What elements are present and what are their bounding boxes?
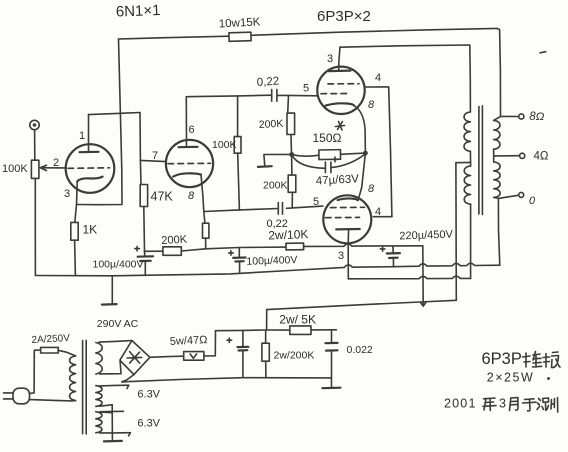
- wire feedback riser and cathode line: [77, 39, 123, 205]
- tube V1b 6N1 triode: [166, 140, 213, 187]
- svg-text:10w15K: 10w15K: [219, 16, 261, 30]
- svg-text:290V AC: 290V AC: [97, 318, 139, 330]
- grid dashes V1b: [168, 162, 211, 164]
- fuse 2A/250V: [41, 347, 59, 353]
- resistor 2w/10K: [286, 243, 304, 250]
- wire HV top to bridge: [99, 341, 132, 343]
- svg-text:2w/ 5K: 2w/ 5K: [279, 313, 316, 327]
- svg-text:6.3V: 6.3V: [137, 389, 160, 401]
- svg-text:5w/47Ω: 5w/47Ω: [170, 334, 208, 348]
- wire plate rail upper 6P3P to OPT: [340, 45, 470, 112]
- resistor 100K splitter plate: [234, 137, 241, 154]
- ground symbol heater: [104, 440, 122, 443]
- terminal 4ohm: [520, 153, 525, 158]
- ground bus main: [35, 263, 499, 276]
- wire 47K bottom to node B3: [143, 207, 146, 252]
- wire bridge negative jog: [122, 375, 134, 382]
- svg-text:150Ω: 150Ω: [313, 131, 342, 145]
- wire 200K to junction: [290, 135, 293, 155]
- OPT primary coil upper: [464, 112, 470, 151]
- capacitor 0.022: [331, 330, 333, 343]
- wire grid-leak stub: [264, 154, 292, 165]
- wire CT horizontal: [456, 161, 471, 163]
- resistor 200K upper: [287, 113, 295, 134]
- plus sign PSU cap: [227, 338, 232, 343]
- svg-text:200K: 200K: [259, 118, 284, 131]
- svg-text:2A/250V: 2A/250V: [31, 333, 70, 346]
- mark inside 47ohm: [190, 354, 196, 358]
- wire 0 tap: [494, 195, 518, 198]
- svg-text:100K: 100K: [2, 163, 28, 175]
- resistor 47K: [140, 185, 147, 207]
- wire 47ohm riser: [204, 331, 216, 356]
- wire pot wiper to grid V1a: [43, 167, 66, 169]
- plus sign cap1: [135, 246, 140, 251]
- wire V1a plate horizontal: [89, 113, 141, 115]
- wire B2 to 10K: [206, 247, 286, 249]
- svg-text:6P3P×2: 6P3P×2: [317, 8, 371, 25]
- svg-text:8: 8: [368, 183, 375, 195]
- wire 200K upper top: [287, 95, 290, 113]
- wire grid4 wire V2 pin4: [365, 86, 389, 88]
- tube V2 upper 6P3P: [317, 67, 364, 114]
- grid dashes V3: [326, 216, 360, 218]
- screen dashes V2: [328, 83, 359, 85]
- resistor 200K horizontal: [163, 247, 181, 256]
- svg-text:4: 4: [375, 72, 381, 84]
- OPT primary tap jog: [469, 151, 471, 166]
- wire junction to 200K lower: [291, 155, 293, 176]
- wire 100K cathode bottom: [205, 238, 207, 249]
- svg-text:6N1×1: 6N1×1: [116, 2, 161, 21]
- grid dashes V2: [321, 93, 350, 95]
- svg-text:100µ/400V: 100µ/400V: [93, 259, 144, 271]
- wire 100K splitter top: [237, 96, 239, 137]
- wire cap lower left: [240, 209, 279, 210]
- svg-text:8Ω: 8Ω: [529, 111, 544, 123]
- arrowhead at H3: [421, 302, 426, 306]
- svg-text:47K: 47K: [151, 190, 174, 204]
- wire to 150ohm: [292, 155, 319, 157]
- svg-text:0.022: 0.022: [347, 344, 373, 356]
- svg-text:2×25W: 2×25W: [487, 370, 534, 384]
- screen dashes V3: [331, 206, 365, 208]
- capacitor 47u/63V plates: [324, 162, 326, 173]
- asterisk mark: [336, 122, 345, 131]
- PT core: [82, 341, 84, 434]
- wire bleeder bottom: [265, 361, 267, 377]
- wire 4ohm tap: [494, 149, 519, 156]
- plus sign cap2: [229, 251, 234, 255]
- svg-text:0,22: 0,22: [256, 75, 279, 89]
- glyph yu: [523, 399, 537, 411]
- wire 1K to ground bus: [74, 240, 77, 275]
- OPT secondary coil lower: [494, 162, 500, 197]
- wire plate node down to 47K: [140, 113, 141, 185]
- ground symbol 0.022: [322, 387, 340, 390]
- wire 6.3V A top lead: [100, 385, 129, 388]
- cathode V1b: [173, 173, 201, 176]
- plate bar V2: [329, 69, 351, 72]
- wire V1a plate lead: [88, 115, 90, 152]
- bridge asterisk: [127, 352, 142, 364]
- wire H3 PSU to Bplus: [267, 300, 457, 309]
- svg-text:7: 7: [152, 150, 158, 162]
- capacitor 0,22 upper: [271, 89, 273, 101]
- resistor 5w/47ohm: [184, 352, 204, 361]
- svg-text:2: 2: [53, 157, 59, 169]
- wire PSU top node: [216, 329, 290, 332]
- OPT secondary coil upper: [494, 120, 500, 149]
- wire cathode V1a down: [75, 182, 77, 223]
- wire 200K horiz left: [145, 250, 163, 252]
- bridge rectifier diamond: [120, 341, 150, 375]
- wire jack to pot: [34, 130, 36, 160]
- svg-text:2w/10K: 2w/10K: [268, 227, 308, 242]
- svg-text:8: 8: [188, 190, 195, 202]
- dot mark: [547, 377, 550, 380]
- resistor 2w/200K bleeder: [262, 343, 269, 361]
- svg-text:1K: 1K: [83, 223, 98, 237]
- svg-text:100µ/400V: 100µ/400V: [246, 254, 297, 268]
- glyph tui: [523, 352, 542, 368]
- svg-text:2w/200K: 2w/200K: [274, 350, 315, 362]
- plate bar V1b: [179, 146, 198, 149]
- svg-text:3: 3: [327, 53, 333, 65]
- wire 0-tap drop: [498, 198, 499, 265]
- svg-text:3: 3: [64, 188, 70, 200]
- stub bar: [258, 165, 272, 168]
- svg-text:47µ/63V: 47µ/63V: [316, 173, 360, 187]
- wire plate lead lower 6P3P down: [347, 229, 349, 278]
- svg-text:8: 8: [368, 99, 375, 111]
- svg-text:3: 3: [338, 250, 344, 262]
- resistor R-FB 10w15K: [229, 32, 251, 41]
- svg-text:100K: 100K: [212, 139, 237, 151]
- wire cathode node to 100K: [204, 212, 205, 224]
- capacitor 100u/400V first: [144, 251, 146, 256]
- capacitor 0,22 lower: [282, 203, 284, 215]
- wire feedback drop to 8ohm tap: [497, 28, 501, 116]
- wire 10K to Bplus corner with hop: [304, 244, 423, 247]
- wire 200K lower to node: [291, 192, 293, 208]
- PT primary coil: [70, 356, 76, 401]
- wire 100K splitter bottom: [238, 153, 240, 210]
- wire plate lead V1b up: [185, 97, 187, 147]
- plate bar V3: [336, 228, 360, 231]
- grid dashes V1a: [68, 167, 110, 170]
- wire grid V1b: [140, 160, 166, 161]
- tube V1a 6N1 triode: [66, 144, 115, 193]
- wire bridge output to 47ohm: [150, 356, 184, 357]
- wire node to cap 0,22 lower: [287, 207, 293, 209]
- wire feedback rail left: [119, 36, 230, 39]
- glyph zhou: [551, 398, 558, 413]
- junction dot right: [363, 151, 368, 156]
- svg-text:2001: 2001: [444, 397, 477, 411]
- resistor 200K lower: [288, 175, 296, 192]
- resistor 1K: [71, 222, 78, 240]
- plug prongs: [4, 393, 14, 399]
- wire plug to PT primary bottom: [30, 400, 76, 401]
- svg-text:6P3P: 6P3P: [482, 350, 522, 368]
- wire plug to fuse: [30, 350, 41, 393]
- wire secondary top lead: [494, 117, 501, 121]
- capacitor 47u/63V arc right: [331, 154, 365, 168]
- cathode V1a: [77, 177, 102, 182]
- plus sign 47u: [333, 157, 338, 162]
- terminal 0: [519, 192, 524, 197]
- wire 8ohm tap: [501, 115, 519, 117]
- svg-text:6: 6: [189, 124, 195, 136]
- terminal 8ohm: [519, 114, 524, 119]
- plate bar V1a: [80, 151, 99, 154]
- PT 6.3V winding B: [96, 412, 102, 433]
- glyph nian: [483, 398, 496, 411]
- wire 5K right: [311, 329, 336, 331]
- svg-text:5: 5: [303, 83, 309, 95]
- stray mark: [540, 52, 546, 53]
- capacitor 47u/63V arc left: [292, 155, 325, 168]
- wire secondary gap: [493, 156, 495, 162]
- wire bleeder top: [265, 330, 267, 343]
- wire pot bottom to ground bus: [34, 178, 36, 275]
- resistor 150ohm: [319, 150, 341, 160]
- glyph shen: [537, 398, 549, 411]
- wire heater CT: [111, 405, 113, 440]
- glyph yue: [510, 398, 519, 411]
- potentiometer 100K input: [31, 160, 39, 178]
- ground symbol amp: [102, 303, 117, 306]
- svg-text:200K: 200K: [263, 180, 288, 192]
- PSU ground bus: [122, 378, 332, 382]
- OPT primary coil lower: [464, 166, 470, 204]
- svg-text:0: 0: [529, 195, 536, 207]
- plus sign 220u: [380, 247, 385, 252]
- wire screen vertical pin4: [389, 87, 392, 217]
- wire cathode V1b lead: [201, 175, 204, 212]
- wire cathode V2 to junction: [354, 106, 365, 153]
- wire Bplus vertical to CT: [455, 163, 457, 301]
- arrowhead wiper: [40, 165, 46, 170]
- wire Bplus down to H3: [422, 246, 424, 306]
- wire 6.3V B bottom lead: [100, 433, 131, 436]
- input jack: [30, 120, 39, 129]
- cathode V3: [338, 198, 359, 200]
- OPT core: [478, 107, 480, 215]
- wire 6.3V A bottom lead: [100, 405, 113, 406]
- svg-text:3: 3: [499, 397, 506, 411]
- wire cathode V3 lead: [358, 153, 365, 200]
- wire grid lower 6P3P: [292, 206, 323, 208]
- svg-text:1: 1: [79, 130, 85, 142]
- wire 6.3V B top lead: [100, 411, 113, 414]
- svg-text:6.3V: 6.3V: [137, 418, 160, 430]
- wire feedback rail right: [251, 28, 497, 35]
- wire HV bottom to bridge: [100, 361, 122, 374]
- capacitor 220u/450V: [392, 246, 394, 253]
- svg-text:200K: 200K: [161, 234, 188, 247]
- wire plate rail V1b: [186, 95, 271, 97]
- cathode V2: [326, 103, 354, 105]
- PT HV secondary coil: [96, 343, 102, 375]
- wire fuse to PT primary: [58, 350, 75, 356]
- resistor 2w/5K: [290, 326, 311, 335]
- wire cathode rail V1b: [204, 210, 240, 212]
- wire cap to grid upper 6P3P: [277, 94, 317, 96]
- svg-text:4: 4: [375, 206, 381, 218]
- wire H2 plate to OPT bottom: [348, 276, 470, 279]
- svg-text:220µ/450V: 220µ/450V: [399, 229, 453, 243]
- junction dot left: [289, 152, 294, 157]
- PT 6.3V winding A: [96, 386, 102, 407]
- AC plug: [13, 388, 30, 404]
- bar heater tap: [100, 410, 123, 412]
- wire plate lead V2: [339, 47, 340, 71]
- wire 200K horiz right: [181, 249, 205, 251]
- wire 150ohm to cathode junction: [341, 153, 366, 154]
- svg-text:4Ω: 4Ω: [534, 151, 549, 163]
- ground stub: [111, 277, 113, 304]
- wire OPT primary bottom drop: [470, 204, 472, 278]
- tube V3 lower 6P3P: [323, 195, 371, 243]
- svg-text:5: 5: [313, 196, 319, 208]
- capacitor PSU filter: [242, 330, 244, 346]
- glyph wan: [543, 352, 560, 368]
- resistor 100K cathode: [203, 223, 209, 238]
- wire 5K node riser to H3: [266, 310, 268, 330]
- wire pin4 lower 6P3P: [373, 216, 392, 218]
- capacitor 100u/400V second: [238, 248, 240, 258]
